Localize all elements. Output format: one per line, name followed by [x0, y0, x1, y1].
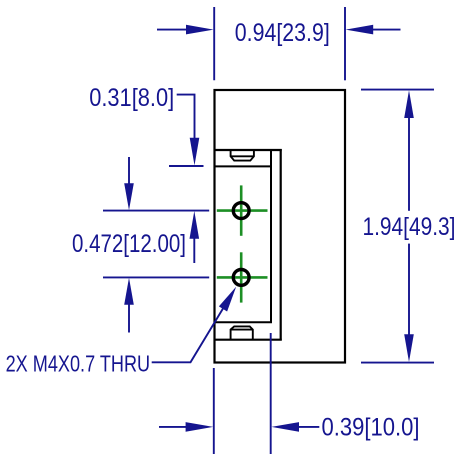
- dimension 0.31[8.0] extension line of flange bottom: [169, 165, 204, 167]
- dimension 0.31[8.0] leader and top arrow: [177, 95, 200, 166]
- svg-text:0.39[10.0]: 0.39[10.0]: [322, 414, 420, 442]
- note leader arrowhead to hole H2: [219, 287, 236, 312]
- bracket top flange line: [214, 149, 282, 151]
- hole H2 circle: [233, 270, 249, 286]
- dimension 0.39[10.0] extension lines: [214, 333, 271, 454]
- hole H2 center extension line: [103, 276, 209, 278]
- bracket lip vertical: [270, 149, 272, 323]
- svg-text:2X M4X0.7 THRU: 2X M4X0.7 THRU: [6, 350, 151, 376]
- top latch tab: [231, 151, 254, 161]
- outer body rectangle: [215, 90, 346, 363]
- dimension 0.94[23.9] left arrow: [157, 25, 214, 35]
- dimension 0.94[23.9] right arrow: [346, 25, 401, 35]
- dimension 0.39[10.0] left arrow: [159, 422, 213, 432]
- dimension 1.94[49.3] extension lines: [361, 90, 434, 363]
- hole H2 centerline cross: [217, 252, 268, 302]
- note leader line: [152, 309, 223, 363]
- bracket bottom flange line: [214, 339, 282, 341]
- hole H1 circle: [233, 203, 249, 219]
- dimension 0.31[8.0] bottom arrow: [190, 211, 200, 263]
- dimension 0.472[12.00] top arrow: [124, 157, 134, 210]
- bracket top flange inner line: [214, 165, 273, 167]
- svg-text:0.94[23.9]: 0.94[23.9]: [235, 19, 330, 47]
- dimension 0.94[23.9] extension lines: [214, 7, 345, 80]
- svg-text:0.31[8.0]: 0.31[8.0]: [89, 84, 174, 112]
- dimension 1.94[49.3] dimension line with arrows: [404, 90, 414, 362]
- bracket right edge vertical: [280, 149, 282, 341]
- bottom latch tab: [231, 326, 253, 339]
- dimension 0.472[12.00] bottom arrow: [124, 278, 134, 333]
- dimension 0.39[10.0] right arrow: [271, 422, 319, 432]
- hole H1 centerline cross: [217, 185, 268, 235]
- svg-text:1.94[49.3]: 1.94[49.3]: [363, 213, 456, 241]
- bracket bottom flange inner line: [214, 321, 273, 323]
- svg-text:0.472[12.00]: 0.472[12.00]: [72, 230, 186, 258]
- hole H1 center extension line: [103, 210, 209, 212]
